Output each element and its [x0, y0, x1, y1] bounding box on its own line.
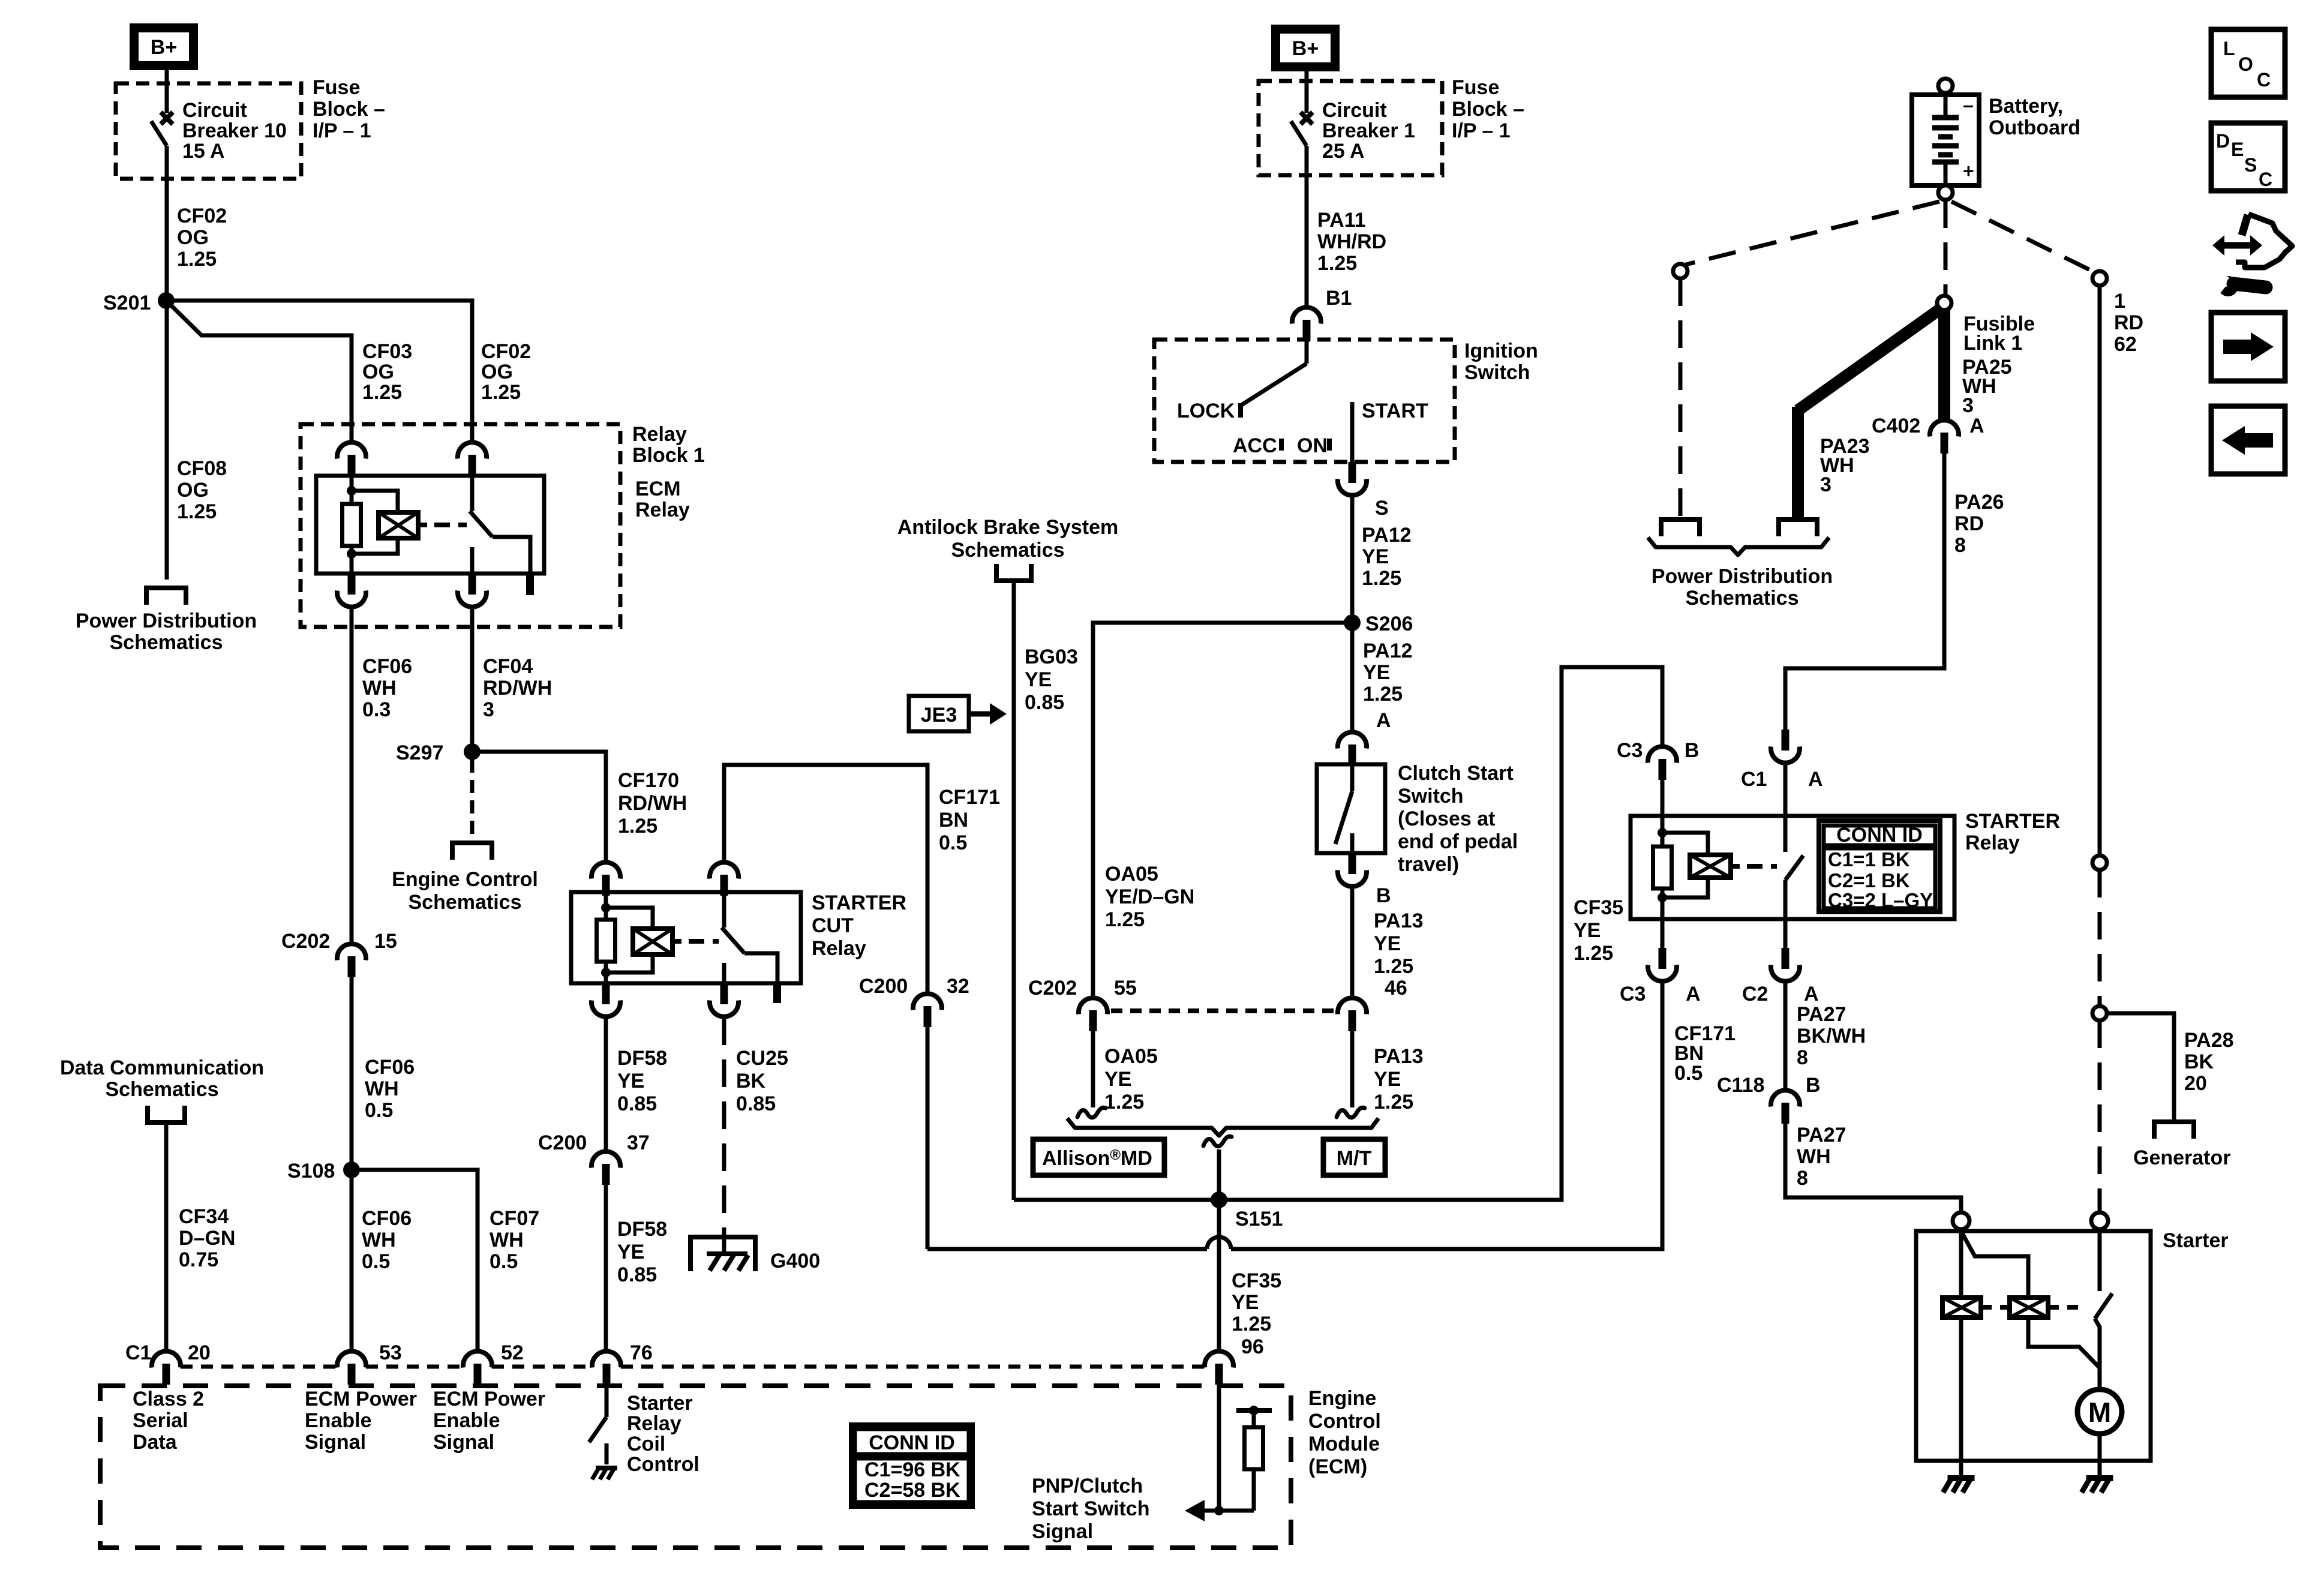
svg-text:PA28: PA28: [2184, 1029, 2234, 1052]
svg-text:Relay: Relay: [627, 1412, 681, 1435]
svg-text:BK: BK: [736, 1070, 766, 1092]
svg-text:0.85: 0.85: [1025, 691, 1064, 714]
in-line reference JE3 with arrow: [909, 696, 969, 731]
fuse block I/P-1 dashed box (right): [1259, 81, 1442, 175]
svg-text:B: B: [1376, 884, 1391, 907]
starter relay box: [1631, 816, 1954, 919]
svg-text:S: S: [1375, 497, 1389, 520]
ignition START contact: [1350, 402, 1355, 462]
starter relay switch: [1783, 816, 1788, 852]
svg-text:YE: YE: [617, 1241, 644, 1263]
ground starter motor: [2082, 1478, 2113, 1493]
svg-text:CF35: CF35: [1574, 896, 1623, 919]
dashed connector line C202 55-46: [1111, 1008, 1334, 1013]
starter cut relay resistor: [597, 920, 615, 962]
svg-text:1.25: 1.25: [1374, 1091, 1413, 1113]
svg-text:8: 8: [1954, 534, 1966, 557]
svg-text:CONN ID: CONN ID: [1836, 824, 1923, 846]
dashed wire CU25 BK 0.85: [722, 1017, 726, 1248]
wire brace to S151: [1217, 1149, 1221, 1200]
connector ECM relay pin 30 top: [458, 442, 487, 476]
svg-text:BK: BK: [2184, 1050, 2214, 1073]
connector starter cut relay switch bottom: [710, 983, 738, 1017]
wire break squiggle OA05: [1077, 1107, 1106, 1118]
svg-text:S151: S151: [1235, 1208, 1283, 1230]
svg-text:CF03: CF03: [362, 340, 412, 363]
svg-text:0.85: 0.85: [617, 1092, 657, 1115]
svg-text:1.25: 1.25: [1232, 1313, 1271, 1335]
svg-text:1.25: 1.25: [618, 815, 657, 837]
starter coil2 return to motor: [2028, 1317, 2100, 1368]
svg-text:53: 53: [379, 1341, 402, 1364]
wire motor to ground: [2098, 1434, 2102, 1475]
wire CF02 OG 1.25 vertical: [165, 146, 169, 301]
svg-text:WH: WH: [365, 1077, 399, 1100]
wire PA27 WH 8 to starter: [1785, 1124, 1961, 1212]
ECM relay coil circuit: [350, 476, 354, 504]
svg-text:Block 1: Block 1: [632, 444, 705, 467]
battery cell symbol: [1944, 95, 1948, 115]
svg-text:D: D: [2216, 130, 2230, 152]
engine control module ECM dashed box: [100, 1386, 1291, 1548]
wire break squiggle below brace: [1203, 1136, 1232, 1146]
connector pin 96: [1205, 1351, 1233, 1385]
wire CF34 D-GN 0.75: [164, 1122, 169, 1352]
ECM relay coil-to-switch dashed link: [434, 523, 467, 527]
svg-text:96: 96: [1241, 1335, 1264, 1358]
connector ECM relay pin 85 bottom: [337, 574, 366, 607]
svg-text:C: C: [2259, 169, 2272, 190]
off-page stub Generator: [2154, 1122, 2194, 1139]
svg-text:–: –: [1963, 94, 1974, 116]
starter coil1 return to ground: [1959, 1317, 1963, 1475]
wire PA26 RD 8: [1785, 454, 1944, 731]
svg-text:CUT: CUT: [812, 914, 854, 937]
starter pull-in coil: [1942, 1298, 1981, 1317]
svg-text:DF58: DF58: [617, 1047, 667, 1070]
svg-text:PNP/Clutch: PNP/Clutch: [1032, 1475, 1143, 1497]
svg-text:25 A: 25 A: [1322, 140, 1365, 163]
dashed generator lead upper: [2098, 870, 2102, 1006]
svg-text:Starter: Starter: [627, 1392, 693, 1415]
svg-text:1.25: 1.25: [177, 248, 217, 271]
svg-text:Enable: Enable: [433, 1409, 500, 1432]
svg-text:Block –: Block –: [313, 98, 385, 121]
svg-text:A: A: [1804, 983, 1819, 1005]
svg-text:Antilock Brake System: Antilock Brake System: [897, 516, 1119, 539]
svg-text:L: L: [2223, 38, 2235, 59]
svg-text:WH: WH: [362, 677, 397, 700]
svg-text:OG: OG: [177, 226, 209, 249]
svg-text:YE: YE: [1362, 545, 1389, 568]
svg-text:M/T: M/T: [1337, 1147, 1372, 1170]
svg-text:Engine Control: Engine Control: [392, 868, 538, 891]
svg-text:Start Switch: Start Switch: [1032, 1497, 1149, 1520]
svg-text:PA27: PA27: [1797, 1003, 1846, 1026]
svg-text:1.25: 1.25: [1105, 908, 1145, 931]
svg-text:G400: G400: [770, 1250, 820, 1272]
svg-text:Module: Module: [1308, 1433, 1380, 1455]
svg-text:C2=58 BK: C2=58 BK: [864, 1479, 960, 1502]
svg-text:BK/WH: BK/WH: [1797, 1025, 1866, 1047]
connector pin 76: [592, 1351, 621, 1385]
starter box: [1916, 1231, 2151, 1461]
svg-text:RD: RD: [1954, 512, 1984, 535]
svg-text:D–GN: D–GN: [179, 1227, 235, 1250]
circuit breaker 1 25A: [1305, 70, 1309, 113]
wire BG03 YE 0.85: [1012, 581, 1016, 1200]
svg-text:ECM Power: ECM Power: [305, 1388, 417, 1410]
dashed battery lead right: [1951, 202, 2094, 272]
starter coils dashed link: [1981, 1305, 2010, 1310]
svg-text:A: A: [1376, 709, 1391, 732]
wire break squiggle PA13: [1337, 1107, 1365, 1118]
svg-text:1.25: 1.25: [177, 500, 217, 523]
svg-text:Signal: Signal: [305, 1431, 366, 1454]
connector pin 53: [337, 1351, 366, 1385]
connector C1 pin 20: [152, 1351, 181, 1385]
svg-text:YE: YE: [1363, 661, 1390, 684]
svg-text:RD: RD: [2114, 311, 2143, 334]
svg-text:CF02: CF02: [177, 205, 227, 227]
svg-text:C2: C2: [1742, 983, 1768, 1005]
svg-text:C1=1 BK: C1=1 BK: [1828, 848, 1910, 870]
wire S206 branch to OA05: [1093, 623, 1352, 998]
ring terminal fusible link: [1937, 296, 1951, 310]
clutch start switch box: [1317, 764, 1385, 853]
svg-text:Relay: Relay: [632, 423, 687, 446]
label box M/T: [1323, 1139, 1385, 1175]
svg-text:PA13: PA13: [1374, 1045, 1424, 1068]
connector C200 pin 37: [591, 1151, 620, 1185]
ECM relay coil: [379, 512, 418, 538]
svg-text:Clutch Start: Clutch Start: [1398, 762, 1514, 785]
svg-text:0.5: 0.5: [362, 1250, 390, 1273]
off-page stub from Antilock Brake System Schematics: [996, 564, 1031, 581]
svg-text:C200: C200: [538, 1131, 587, 1154]
wire CF08 OG 1.25 down from S201: [165, 301, 169, 580]
svg-text:Data: Data: [133, 1431, 178, 1454]
svg-text:Relay: Relay: [812, 937, 866, 960]
svg-text:Serial: Serial: [133, 1409, 188, 1432]
dashed battery lead left: [1686, 202, 1939, 265]
svg-text:PA12: PA12: [1362, 524, 1412, 547]
svg-text:Class 2: Class 2: [133, 1388, 204, 1410]
svg-text:8: 8: [1797, 1046, 1808, 1069]
ground starter solenoid: [1943, 1478, 1975, 1493]
svg-text:YE: YE: [1374, 932, 1401, 955]
svg-text:32: 32: [947, 975, 969, 998]
off-page stub from Data Communication Schematics: [148, 1106, 185, 1122]
ring terminal right (1 RD 62 top): [2092, 271, 2107, 286]
svg-text:Relay: Relay: [1965, 831, 2020, 854]
svg-text:Power Distribution: Power Distribution: [1652, 565, 1833, 588]
svg-text:WH: WH: [490, 1229, 524, 1251]
svg-text:S206: S206: [1365, 613, 1413, 635]
svg-text:Power Distribution: Power Distribution: [76, 610, 257, 632]
svg-text:Relay: Relay: [635, 499, 690, 521]
wire CF35 to ECM pin 96: [1217, 1208, 1221, 1352]
label box Allison MD: [1033, 1139, 1164, 1175]
connector starter cut relay switch top: [710, 862, 738, 896]
connector C118 B: [1771, 1090, 1800, 1124]
svg-text:CF35: CF35: [1232, 1269, 1281, 1292]
svg-text:ECM: ECM: [635, 478, 681, 500]
starter terminal B (right): [2091, 1212, 2108, 1229]
dashed battery lead center: [1944, 200, 1948, 295]
svg-text:E: E: [2231, 139, 2244, 160]
connector C202 pin 55: [1079, 998, 1107, 1031]
svg-text:C118: C118: [1717, 1074, 1764, 1097]
svg-text:BG03: BG03: [1025, 646, 1078, 668]
svg-text:C202: C202: [281, 930, 330, 953]
svg-text:ECM Power: ECM Power: [433, 1388, 545, 1410]
wire CF06 WH 0.3: [350, 608, 354, 944]
svg-text:20: 20: [2184, 1072, 2207, 1095]
svg-text:B+: B+: [1292, 37, 1319, 60]
svg-text:WH: WH: [1797, 1145, 1831, 1168]
svg-text:C1: C1: [125, 1341, 151, 1364]
svg-text:BN: BN: [939, 809, 968, 831]
svg-text:Control: Control: [1308, 1410, 1381, 1433]
wire PA13 YE 1.25 upper: [1350, 887, 1355, 998]
icon wrench and double arrow: [2218, 242, 2257, 249]
svg-text:Engine: Engine: [1308, 1387, 1376, 1410]
svg-text:46: 46: [1385, 977, 1407, 999]
connector starter relay C3 B: [1648, 746, 1677, 780]
ECM relay box U-ECM-RLY: [316, 476, 544, 574]
ignition switch dashed box: [1154, 340, 1455, 462]
svg-text:WH/RD: WH/RD: [1317, 230, 1386, 253]
svg-text:1.25: 1.25: [1104, 1091, 1144, 1113]
svg-text:Circuit: Circuit: [182, 99, 247, 122]
conn id table (starter relay): [1819, 821, 1940, 912]
starter terminal S (left): [1953, 1212, 1969, 1229]
svg-text:A: A: [1686, 983, 1701, 1005]
starter relay resistor: [1653, 846, 1672, 888]
dashed lead to power distribution: [1679, 278, 1683, 517]
connector ECM relay pin 87 bottom: [458, 574, 487, 607]
starter cut relay switch: [722, 892, 726, 927]
wire S151 row / CF35 YE 1.25 to starter relay: [1014, 667, 1662, 1200]
svg-text:CF02: CF02: [481, 340, 531, 363]
node S206: [1344, 614, 1361, 631]
icon box arrow right: [2211, 313, 2285, 381]
node S108: [343, 1161, 360, 1178]
wire DF58 YE 0.85 upper: [604, 1017, 608, 1152]
wire S201 to CF02 branch right: [166, 301, 472, 443]
svg-text:37: 37: [627, 1131, 650, 1154]
svg-text:0.75: 0.75: [179, 1248, 218, 1271]
ECM internal switch to ground (pin 76): [605, 1383, 609, 1417]
signal arrow PNP/Clutch Start Switch Signal: [1185, 1500, 1205, 1521]
ring terminal generator tap: [2092, 1006, 2107, 1020]
node S151: [1211, 1191, 1227, 1208]
svg-text:PA11: PA11: [1317, 209, 1366, 232]
svg-text:OG: OG: [481, 361, 513, 383]
svg-text:Breaker 10: Breaker 10: [182, 119, 287, 142]
svg-text:YE: YE: [1025, 668, 1052, 691]
starter cut relay coil circuit: [604, 892, 608, 920]
svg-text:A: A: [1808, 768, 1823, 791]
svg-text:0.5: 0.5: [1674, 1062, 1703, 1085]
svg-text:0.3: 0.3: [362, 698, 391, 721]
svg-text:YE/D–GN: YE/D–GN: [1105, 885, 1194, 908]
svg-text:DF58: DF58: [617, 1218, 667, 1241]
svg-text:Battery,: Battery,: [1989, 95, 2063, 118]
svg-text:PA12: PA12: [1363, 640, 1413, 662]
svg-text:Enable: Enable: [305, 1409, 371, 1432]
svg-text:CONN ID: CONN ID: [869, 1431, 955, 1454]
svg-text:O: O: [2238, 53, 2253, 75]
fuse block I/P-1 dashed box (left): [116, 83, 301, 179]
svg-text:C3: C3: [1617, 739, 1643, 762]
connector ECM relay pin 86 top: [337, 442, 366, 476]
svg-text:S: S: [2244, 154, 2257, 176]
ground G400: [690, 1237, 755, 1271]
svg-text:travel): travel): [1398, 853, 1459, 876]
icon box DESC: [2211, 123, 2285, 191]
svg-text:end of pedal: end of pedal: [1398, 830, 1518, 853]
svg-text:1.25: 1.25: [1363, 683, 1403, 706]
svg-text:Data Communication: Data Communication: [60, 1056, 264, 1079]
motor M: [2077, 1389, 2122, 1434]
svg-text:CF04: CF04: [483, 655, 533, 678]
wire CF04 RD/WH 3: [470, 608, 475, 752]
svg-text:PA26: PA26: [1954, 491, 2004, 514]
svg-text:52: 52: [501, 1341, 524, 1364]
svg-text:I/P – 1: I/P – 1: [1452, 119, 1511, 142]
wire OA05 YE 1.25 below C202: [1091, 1031, 1095, 1107]
wire hop over CF35 at S151: [1207, 1237, 1231, 1249]
wire PA27 BK/WH 8: [1783, 982, 1788, 1091]
svg-text:Ignition: Ignition: [1464, 340, 1538, 362]
svg-text:LOCK: LOCK: [1177, 400, 1235, 422]
svg-text:Outboard: Outboard: [1989, 116, 2080, 139]
dashed wire S297 to engine control schematics: [470, 760, 475, 841]
svg-text:C3: C3: [1620, 983, 1646, 1005]
svg-text:62: 62: [2114, 333, 2137, 356]
svg-text:0.5: 0.5: [939, 831, 967, 854]
ring terminal left: [1673, 264, 1688, 278]
starter relay coil circuit: [1661, 816, 1665, 846]
node S201: [158, 292, 175, 309]
starter relay coil: [1690, 855, 1731, 878]
svg-text:CF06: CF06: [362, 1207, 412, 1230]
connector starter cut relay coil top: [591, 862, 620, 896]
relay block 1 dashed box: [301, 424, 620, 627]
svg-text:Generator: Generator: [2133, 1146, 2231, 1169]
node S297: [464, 743, 481, 760]
svg-text:CF06: CF06: [362, 655, 412, 678]
svg-text:Schematics: Schematics: [110, 631, 223, 654]
svg-text:1.25: 1.25: [1574, 942, 1613, 965]
connector starter relay C1 A: [1771, 730, 1800, 763]
connector clutch start switch A: [1338, 732, 1367, 766]
svg-text:C200: C200: [859, 975, 908, 998]
starter relay dashed link: [1747, 864, 1777, 869]
svg-text:Coil: Coil: [627, 1433, 665, 1455]
svg-text:Schematics: Schematics: [106, 1078, 219, 1101]
svg-text:Switch: Switch: [1398, 785, 1464, 807]
svg-text:CF34: CF34: [179, 1205, 229, 1228]
ECM connector row C1 dashed line: [181, 1365, 337, 1369]
dashed generator lead lower: [2098, 1020, 2102, 1212]
svg-text:YE: YE: [1374, 1068, 1401, 1091]
starter hold-in coil: [2010, 1298, 2048, 1317]
svg-text:Schematics: Schematics: [1686, 587, 1799, 610]
svg-text:76: 76: [630, 1341, 653, 1364]
battery outboard box: [1912, 95, 1979, 185]
svg-text:B: B: [1685, 739, 1700, 762]
ignition switch blade: [1305, 340, 1309, 364]
svg-text:1.25: 1.25: [362, 381, 402, 404]
connector starter relay C3 A: [1661, 919, 1665, 948]
svg-text:0.5: 0.5: [365, 1099, 393, 1122]
svg-text:Control: Control: [627, 1453, 699, 1476]
connector starter cut relay coil bottom: [591, 983, 620, 1017]
svg-text:15: 15: [374, 930, 397, 953]
svg-text:Signal: Signal: [433, 1431, 494, 1454]
off-page stub power distribution (left leg): [1661, 520, 1700, 536]
merge brace power distribution: [1648, 538, 1829, 555]
starter main contact: [2098, 1229, 2102, 1291]
conn id table (ECM): [851, 1425, 972, 1506]
wire PA28 BK 20 branch: [2107, 1013, 2174, 1121]
wire DF58 YE 0.85 lower: [604, 1185, 608, 1352]
svg-text:M: M: [2088, 1397, 2111, 1428]
svg-text:0.85: 0.85: [736, 1092, 776, 1115]
svg-text:RD/WH: RD/WH: [618, 792, 687, 815]
svg-text:Circuit: Circuit: [1322, 99, 1387, 122]
icon box LOC: [2211, 29, 2285, 97]
svg-text:3: 3: [483, 698, 494, 721]
svg-text:Fuse: Fuse: [1452, 76, 1499, 99]
connector C202 pin 46: [1338, 998, 1367, 1031]
svg-text:Switch: Switch: [1464, 361, 1530, 384]
svg-text:Breaker 1: Breaker 1: [1322, 119, 1415, 142]
svg-text:STARTER: STARTER: [1965, 810, 2060, 833]
wire PA12 YE 1.25 upper: [1350, 496, 1355, 623]
merge brace Allison/MT: [1067, 1118, 1379, 1136]
svg-text:A: A: [1969, 415, 1984, 437]
wire PA13 YE 1.25 below C202: [1350, 1031, 1355, 1107]
svg-text:CF07: CF07: [490, 1207, 539, 1230]
svg-text:0.5: 0.5: [490, 1250, 518, 1273]
ECM relay resistor: [343, 504, 361, 546]
svg-text:YE: YE: [1104, 1068, 1131, 1091]
connector S ignition output: [1338, 462, 1367, 496]
svg-text:C1=96 BK: C1=96 BK: [864, 1458, 960, 1481]
circuit breaker 10 15A: [165, 70, 169, 113]
svg-text:8: 8: [1797, 1167, 1808, 1190]
connector C402 A: [1930, 420, 1959, 454]
svg-text:1.25: 1.25: [1374, 955, 1413, 978]
power symbol B+ feed 1: [130, 23, 198, 70]
starter cut relay box: [571, 892, 801, 983]
svg-text:JE3: JE3: [921, 704, 957, 727]
svg-text:1.25: 1.25: [1362, 567, 1401, 590]
ring terminal mid right: [2092, 855, 2107, 870]
wire S108 branch to CF07: [352, 1170, 478, 1352]
svg-text:Starter: Starter: [2163, 1229, 2229, 1252]
svg-text:OA05: OA05: [1104, 1045, 1158, 1068]
wire CF171 from starter cut relay to C200-32: [724, 765, 927, 994]
svg-text:I/P – 1: I/P – 1: [313, 119, 371, 142]
battery outboard negative terminal: [1938, 79, 1953, 93]
wire CF171 BN 0.5 long run to starter relay: [926, 1027, 930, 1249]
off-page stub to Engine Control Schematics: [452, 843, 492, 860]
